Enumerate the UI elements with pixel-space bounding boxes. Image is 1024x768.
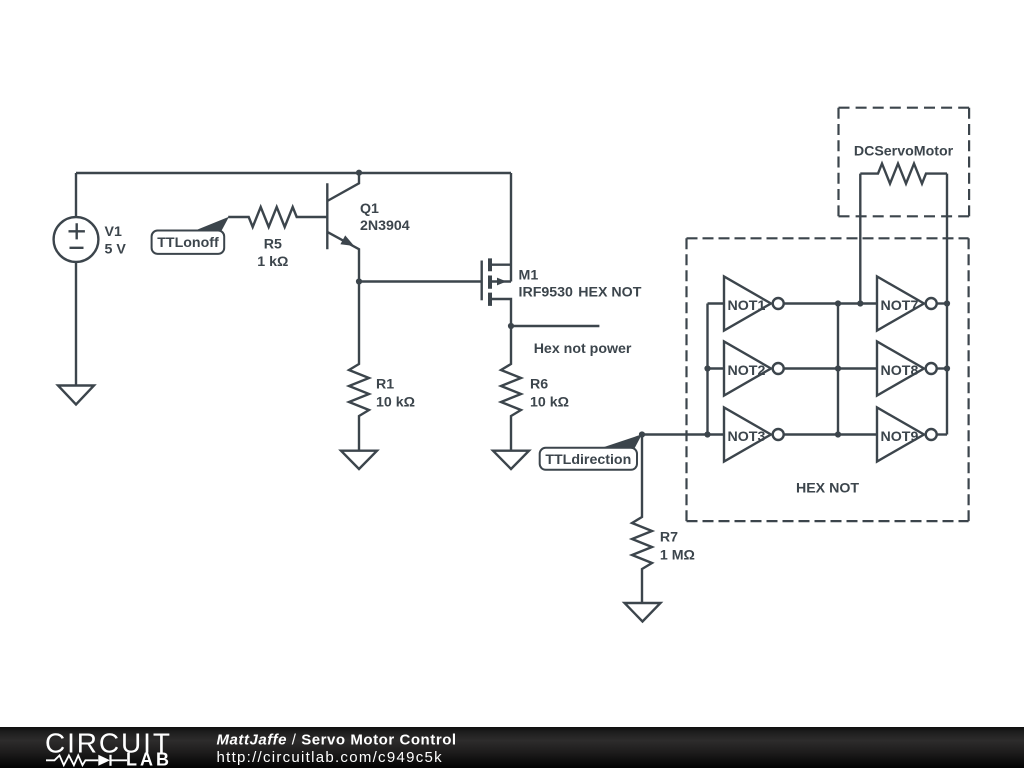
svg-text:10 kΩ: 10 kΩ [530, 395, 569, 411]
svg-text:R6: R6 [530, 377, 548, 393]
svg-text:DCServoMotor: DCServoMotor [854, 144, 954, 160]
svg-text:V1: V1 [105, 224, 122, 240]
svg-text:2N3904: 2N3904 [360, 218, 410, 234]
svg-text:TTLdirection: TTLdirection [545, 452, 631, 468]
svg-text:Hex not power: Hex not power [534, 341, 632, 357]
svg-text:5 V: 5 V [105, 241, 127, 257]
svg-text:NOT7: NOT7 [881, 298, 919, 314]
svg-text:IRF9530: IRF9530 [519, 284, 574, 300]
svg-text:Q1: Q1 [360, 201, 379, 217]
svg-text:NOT8: NOT8 [881, 363, 919, 379]
svg-text:R5: R5 [264, 236, 282, 252]
svg-text:TTLonoff: TTLonoff [157, 235, 219, 251]
svg-text:M1: M1 [519, 267, 539, 283]
svg-text:MattJaffe / Servo Motor Contro: MattJaffe / Servo Motor Control [217, 732, 457, 749]
svg-text:NOT9: NOT9 [881, 429, 919, 445]
svg-text:NOT1: NOT1 [728, 298, 766, 314]
svg-text:R1: R1 [376, 377, 394, 393]
svg-text:NOT2: NOT2 [728, 363, 766, 379]
svg-text:LAB: LAB [126, 750, 172, 768]
svg-text:http://circuitlab.com/c949c5k: http://circuitlab.com/c949c5k [217, 749, 443, 766]
svg-text:10 kΩ: 10 kΩ [376, 395, 415, 411]
svg-text:1 MΩ: 1 MΩ [660, 548, 695, 564]
svg-text:HEX NOT: HEX NOT [578, 284, 641, 300]
svg-text:1 kΩ: 1 kΩ [257, 254, 288, 270]
svg-text:NOT3: NOT3 [728, 429, 766, 445]
svg-text:R7: R7 [660, 530, 678, 546]
svg-text:HEX NOT: HEX NOT [796, 481, 859, 497]
